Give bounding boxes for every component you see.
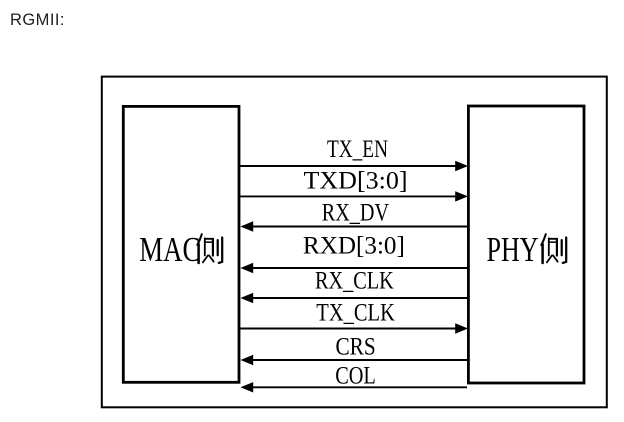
svg-text:TX_EN: TX_EN: [327, 135, 388, 163]
svg-text:PHY: PHY: [487, 230, 539, 269]
svg-text:RX_DV: RX_DV: [322, 198, 390, 226]
svg-text:RX_CLK: RX_CLK: [315, 267, 394, 294]
svg-text:TX_CLK: TX_CLK: [316, 299, 395, 326]
svg-text:TXD[3:0]: TXD[3:0]: [303, 166, 407, 194]
svg-text:COL: COL: [335, 362, 376, 389]
svg-text:RXD[3:0]: RXD[3:0]: [303, 233, 405, 260]
svg-text:CRS: CRS: [335, 333, 375, 361]
svg-text:MAC: MAC: [139, 230, 200, 269]
